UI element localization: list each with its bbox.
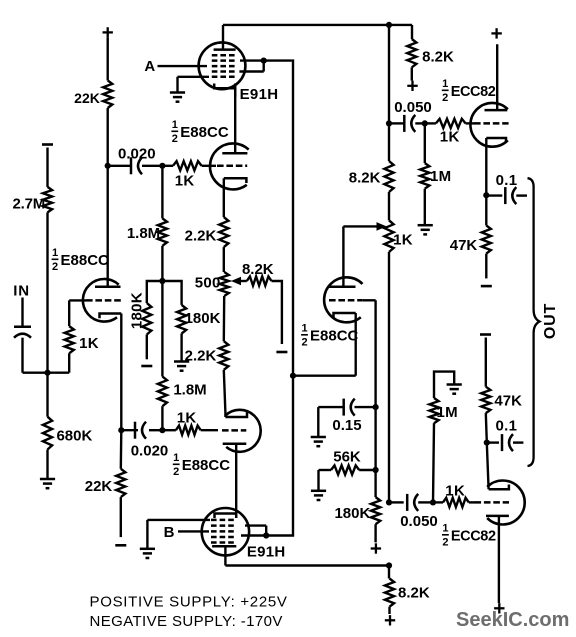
- svg-text:500: 500: [195, 274, 221, 291]
- svg-text:180K: 180K: [129, 292, 146, 329]
- svg-text:1: 1: [52, 247, 58, 259]
- svg-text:1.8M: 1.8M: [127, 225, 160, 242]
- svg-text:47K: 47K: [494, 393, 522, 410]
- svg-text:1K: 1K: [175, 173, 195, 190]
- svg-text:1: 1: [301, 323, 307, 335]
- svg-text:E88CC: E88CC: [61, 252, 110, 269]
- svg-text:E91H: E91H: [240, 86, 279, 103]
- svg-text:SeekIC.com: SeekIC.com: [456, 609, 569, 631]
- svg-text:47K: 47K: [450, 237, 478, 254]
- svg-text:0.020: 0.020: [118, 146, 156, 163]
- svg-text:180K: 180K: [334, 505, 370, 522]
- svg-text:22K: 22K: [85, 478, 113, 495]
- svg-text:ECC82: ECC82: [451, 529, 496, 545]
- svg-text:E88CC: E88CC: [180, 124, 229, 141]
- svg-text:1: 1: [442, 78, 448, 90]
- svg-text:1K: 1K: [445, 483, 465, 500]
- svg-text:0.020: 0.020: [131, 443, 169, 460]
- svg-text:A: A: [144, 58, 155, 75]
- svg-text:8.2K: 8.2K: [422, 49, 454, 66]
- svg-text:0.050: 0.050: [400, 513, 438, 530]
- svg-text:8.2K: 8.2K: [398, 585, 430, 602]
- svg-text:0.1: 0.1: [496, 418, 518, 435]
- svg-text:2.7M: 2.7M: [13, 195, 46, 212]
- svg-text:1K: 1K: [79, 335, 99, 352]
- svg-text:0.15: 0.15: [332, 417, 361, 434]
- svg-text:22K: 22K: [74, 90, 100, 106]
- svg-text:56K: 56K: [333, 449, 361, 466]
- svg-text:2: 2: [173, 466, 179, 478]
- svg-text:E88CC: E88CC: [310, 328, 359, 345]
- svg-text:2: 2: [52, 261, 58, 273]
- svg-text:E88CC: E88CC: [182, 457, 231, 474]
- svg-text:1: 1: [173, 452, 179, 464]
- svg-text:ECC82: ECC82: [451, 84, 496, 100]
- svg-text:680K: 680K: [56, 428, 92, 445]
- svg-text:B: B: [164, 524, 175, 541]
- svg-text:IN: IN: [13, 283, 30, 300]
- svg-text:1M: 1M: [430, 168, 451, 185]
- svg-text:1K: 1K: [440, 129, 460, 146]
- svg-text:OUT: OUT: [542, 303, 559, 339]
- svg-text:2: 2: [172, 133, 178, 145]
- svg-text:2.2K: 2.2K: [185, 227, 217, 244]
- svg-text:E91H: E91H: [247, 544, 286, 561]
- svg-text:2: 2: [442, 92, 448, 104]
- svg-text:0.1: 0.1: [496, 172, 518, 189]
- svg-text:NEGATIVE SUPPLY: -170V: NEGATIVE SUPPLY: -170V: [90, 613, 283, 630]
- svg-text:0.050: 0.050: [394, 99, 432, 116]
- svg-text:1: 1: [442, 523, 448, 535]
- svg-text:2: 2: [301, 337, 307, 349]
- svg-text:1.8M: 1.8M: [173, 382, 206, 399]
- svg-text:180K: 180K: [185, 310, 221, 327]
- svg-text:1M: 1M: [436, 404, 457, 421]
- svg-text:8.2K: 8.2K: [349, 170, 381, 187]
- svg-text:8.2K: 8.2K: [242, 261, 274, 278]
- svg-text:POSITIVE SUPPLY: +225V: POSITIVE SUPPLY: +225V: [90, 594, 288, 611]
- svg-text:1K: 1K: [177, 410, 197, 427]
- svg-text:1K: 1K: [393, 231, 413, 248]
- svg-text:1: 1: [172, 119, 178, 131]
- svg-text:2: 2: [442, 537, 448, 549]
- svg-text:2.2K: 2.2K: [185, 348, 217, 365]
